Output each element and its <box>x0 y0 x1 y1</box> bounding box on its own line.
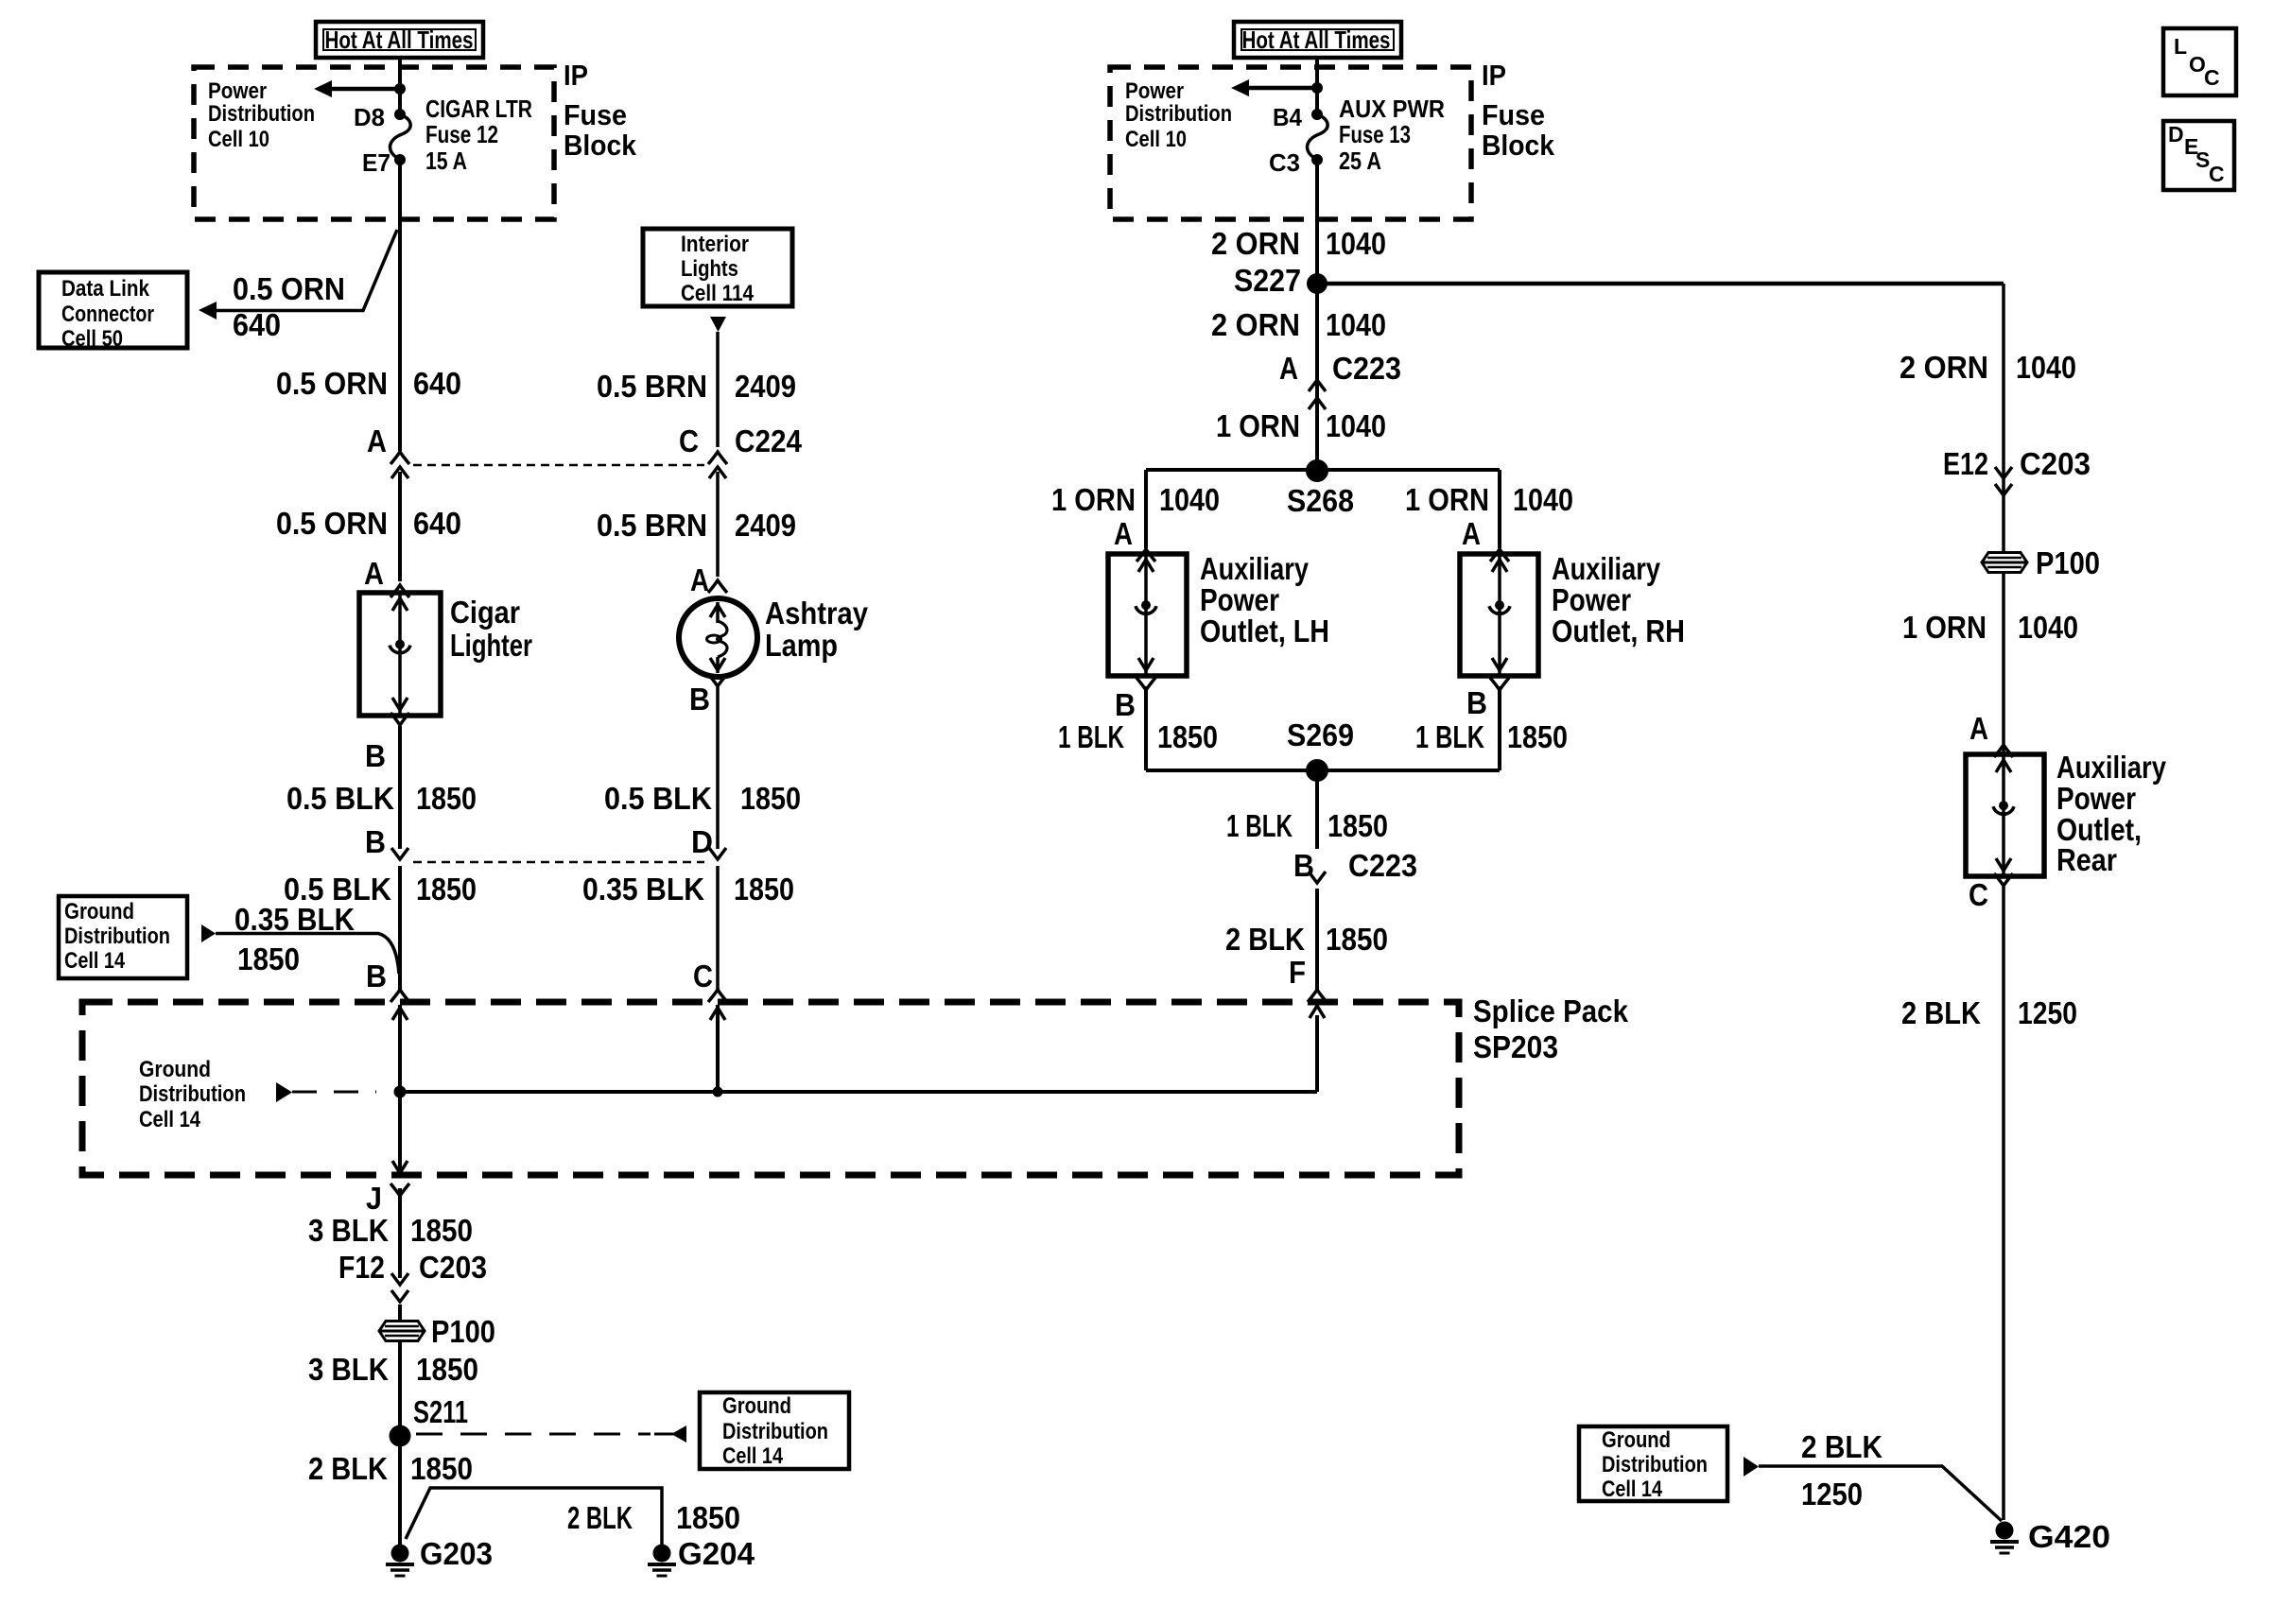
svg-text:1 BLK: 1 BLK <box>1058 719 1124 754</box>
svg-text:Distribution: Distribution <box>139 1081 246 1107</box>
svg-text:Lamp: Lamp <box>765 628 838 663</box>
svg-text:S269: S269 <box>1287 717 1354 752</box>
svg-text:2 BLK: 2 BLK <box>567 1500 633 1535</box>
svg-text:1040: 1040 <box>1326 307 1386 342</box>
svg-text:Distribution: Distribution <box>1602 1452 1708 1477</box>
svg-text:1850: 1850 <box>1507 719 1568 754</box>
svg-text:1040: 1040 <box>2018 610 2078 645</box>
svg-text:1850: 1850 <box>1157 719 1218 754</box>
svg-text:0.5 BLK: 0.5 BLK <box>286 781 394 816</box>
svg-text:A: A <box>1114 516 1133 551</box>
svg-text:1040: 1040 <box>2016 350 2076 385</box>
svg-text:2 ORN: 2 ORN <box>1900 350 1988 385</box>
svg-text:640: 640 <box>233 307 281 342</box>
svg-text:Distribution: Distribution <box>64 924 170 949</box>
svg-text:A: A <box>364 556 384 591</box>
svg-text:B: B <box>1115 687 1136 722</box>
svg-text:Auxiliary: Auxiliary <box>1200 551 1310 586</box>
svg-text:1850: 1850 <box>1326 922 1388 957</box>
svg-text:1850: 1850 <box>410 1213 473 1248</box>
svg-text:SP203: SP203 <box>1473 1029 1558 1064</box>
svg-text:B: B <box>366 959 387 993</box>
svg-text:Distribution: Distribution <box>1125 101 1232 127</box>
svg-text:G204: G204 <box>678 1536 755 1571</box>
svg-text:1850: 1850 <box>676 1500 740 1535</box>
svg-text:1040: 1040 <box>1326 226 1386 261</box>
svg-text:S211: S211 <box>413 1394 468 1429</box>
svg-text:AUX PWR: AUX PWR <box>1339 95 1445 123</box>
svg-text:Data Link: Data Link <box>61 276 150 302</box>
svg-text:3 BLK: 3 BLK <box>308 1213 389 1248</box>
svg-text:Cell 14: Cell 14 <box>64 948 126 974</box>
svg-text:Fuse: Fuse <box>1482 98 1545 131</box>
svg-text:Auxiliary: Auxiliary <box>2056 750 2167 785</box>
svg-text:Lighter: Lighter <box>450 628 532 663</box>
svg-text:1250: 1250 <box>2018 995 2077 1030</box>
svg-text:2409: 2409 <box>735 369 796 404</box>
svg-text:C: C <box>693 959 713 993</box>
svg-text:Block: Block <box>564 129 637 162</box>
svg-text:F: F <box>1289 955 1306 990</box>
svg-text:Outlet, LH: Outlet, LH <box>1200 613 1329 648</box>
svg-text:B: B <box>365 738 386 773</box>
svg-text:3 BLK: 3 BLK <box>308 1352 389 1387</box>
svg-text:F12: F12 <box>338 1250 385 1285</box>
svg-text:2 ORN: 2 ORN <box>1211 307 1300 342</box>
svg-text:0.5 ORN: 0.5 ORN <box>276 506 388 541</box>
svg-text:15 A: 15 A <box>425 147 467 175</box>
svg-text:Cigar: Cigar <box>450 595 520 630</box>
svg-text:2 BLK: 2 BLK <box>1801 1429 1883 1464</box>
svg-text:Fuse 12: Fuse 12 <box>425 120 498 148</box>
svg-text:1 ORN: 1 ORN <box>1405 482 1489 517</box>
svg-text:0.5 ORN: 0.5 ORN <box>276 366 388 401</box>
svg-text:B4: B4 <box>1273 103 1302 131</box>
svg-text:Power: Power <box>208 78 267 104</box>
svg-text:A: A <box>1969 711 1988 746</box>
svg-text:Power: Power <box>1552 582 1631 617</box>
svg-text:1850: 1850 <box>416 781 477 816</box>
svg-text:C223: C223 <box>1332 351 1401 386</box>
svg-text:2 ORN: 2 ORN <box>1211 226 1300 261</box>
svg-text:CIGAR LTR: CIGAR LTR <box>425 95 532 123</box>
svg-text:C203: C203 <box>2020 446 2091 481</box>
svg-text:Cell 14: Cell 14 <box>722 1443 784 1469</box>
svg-text:2 BLK: 2 BLK <box>1225 922 1305 957</box>
svg-text:C: C <box>679 423 699 458</box>
svg-text:C224: C224 <box>735 423 803 458</box>
svg-text:Fuse 13: Fuse 13 <box>1339 120 1411 148</box>
svg-text:1850: 1850 <box>410 1451 473 1486</box>
svg-text:Outlet, RH: Outlet, RH <box>1552 613 1685 648</box>
svg-text:1 ORN: 1 ORN <box>1902 610 1987 645</box>
svg-text:E12: E12 <box>1943 446 1988 481</box>
svg-text:0.35 BLK: 0.35 BLK <box>234 902 355 937</box>
svg-text:Hot At All Times: Hot At All Times <box>325 26 474 54</box>
svg-text:640: 640 <box>413 366 461 401</box>
svg-text:Auxiliary: Auxiliary <box>1552 551 1661 586</box>
svg-text:Cell 50: Cell 50 <box>61 326 123 352</box>
svg-text:Lights: Lights <box>681 256 738 282</box>
svg-text:1 ORN: 1 ORN <box>1051 482 1136 517</box>
svg-text:0.35 BLK: 0.35 BLK <box>582 872 704 907</box>
svg-text:Ashtray: Ashtray <box>765 596 869 631</box>
svg-text:IP: IP <box>1482 59 1506 92</box>
svg-text:L: L <box>2174 34 2187 59</box>
svg-text:P100: P100 <box>431 1314 495 1349</box>
svg-text:D: D <box>2168 122 2184 147</box>
svg-text:0.5 BLK: 0.5 BLK <box>604 781 712 816</box>
svg-text:Hot At All Times: Hot At All Times <box>1242 26 1391 54</box>
svg-text:A: A <box>1279 351 1298 386</box>
svg-text:1 BLK: 1 BLK <box>1415 719 1484 754</box>
svg-text:Power: Power <box>1125 78 1184 104</box>
svg-text:B: B <box>1466 685 1487 720</box>
svg-text:640: 640 <box>413 506 461 541</box>
svg-text:Rear: Rear <box>2056 842 2117 877</box>
svg-text:1040: 1040 <box>1159 482 1220 517</box>
svg-text:Distribution: Distribution <box>722 1419 828 1444</box>
svg-text:C: C <box>2209 162 2225 186</box>
svg-text:P100: P100 <box>2036 545 2100 580</box>
svg-text:0.5 BRN: 0.5 BRN <box>597 369 707 404</box>
svg-text:Distribution: Distribution <box>208 101 315 127</box>
svg-text:C223: C223 <box>1348 848 1417 883</box>
svg-text:B: B <box>365 824 386 859</box>
svg-text:C: C <box>1969 877 1988 912</box>
svg-text:Cell 10: Cell 10 <box>208 127 269 152</box>
svg-text:1850: 1850 <box>416 872 477 907</box>
svg-text:E7: E7 <box>362 148 390 177</box>
svg-text:Ground: Ground <box>139 1057 211 1082</box>
svg-text:S227: S227 <box>1234 263 1301 298</box>
svg-text:Fuse: Fuse <box>564 98 627 131</box>
svg-text:Splice Pack: Splice Pack <box>1473 993 1629 1028</box>
svg-text:B: B <box>689 682 710 717</box>
svg-text:1 ORN: 1 ORN <box>1216 408 1300 443</box>
svg-text:J: J <box>366 1181 382 1216</box>
svg-text:G420: G420 <box>2028 1519 2110 1554</box>
svg-text:Power: Power <box>2056 781 2136 816</box>
svg-text:1850: 1850 <box>740 781 801 816</box>
svg-text:1850: 1850 <box>237 942 300 976</box>
svg-text:Ground: Ground <box>722 1393 791 1419</box>
svg-text:C203: C203 <box>419 1250 487 1285</box>
svg-text:G203: G203 <box>420 1536 493 1571</box>
svg-text:Cell 14: Cell 14 <box>1602 1477 1663 1502</box>
svg-text:Ground: Ground <box>64 899 134 924</box>
svg-text:D: D <box>691 824 713 859</box>
svg-text:2409: 2409 <box>735 508 796 543</box>
svg-text:1040: 1040 <box>1513 482 1573 517</box>
svg-text:0.5 ORN: 0.5 ORN <box>233 271 345 306</box>
svg-text:IP: IP <box>564 59 588 92</box>
svg-text:S268: S268 <box>1287 483 1354 518</box>
svg-text:D8: D8 <box>354 103 385 131</box>
svg-text:C: C <box>2204 65 2220 90</box>
svg-text:0.5 BRN: 0.5 BRN <box>597 508 707 543</box>
svg-text:Power: Power <box>1200 582 1279 617</box>
svg-text:Interior: Interior <box>681 232 749 257</box>
svg-text:2 BLK: 2 BLK <box>1901 995 1981 1030</box>
svg-text:1 BLK: 1 BLK <box>1226 808 1293 843</box>
svg-text:1850: 1850 <box>734 872 794 907</box>
svg-text:1850: 1850 <box>1327 808 1388 843</box>
svg-text:1040: 1040 <box>1326 408 1386 443</box>
svg-text:Block: Block <box>1482 129 1555 162</box>
svg-text:A: A <box>690 562 709 597</box>
svg-text:A: A <box>1462 516 1481 551</box>
svg-text:Connector: Connector <box>61 302 154 327</box>
svg-text:C3: C3 <box>1269 148 1300 177</box>
svg-text:Ground: Ground <box>1602 1427 1671 1453</box>
svg-text:25 A: 25 A <box>1339 147 1381 175</box>
svg-text:2 BLK: 2 BLK <box>308 1451 388 1486</box>
svg-text:1250: 1250 <box>1801 1477 1863 1512</box>
svg-text:Cell 10: Cell 10 <box>1125 127 1187 152</box>
svg-text:A: A <box>367 423 387 458</box>
svg-text:1850: 1850 <box>416 1352 478 1387</box>
svg-text:Cell 114: Cell 114 <box>681 281 755 306</box>
svg-text:Cell 14: Cell 14 <box>139 1107 201 1132</box>
